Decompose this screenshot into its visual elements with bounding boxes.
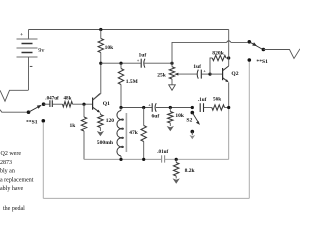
wire Q2 collector to rail xyxy=(228,30,230,67)
node 47k bottom xyxy=(142,158,145,161)
svg-text:.1uf: .1uf xyxy=(198,97,207,103)
switch S1 output half xyxy=(248,40,269,65)
transistor Q2 xyxy=(223,66,239,82)
svg-text:8.2k: 8.2k xyxy=(185,168,196,174)
bypass wire right vertical xyxy=(248,61,250,198)
ground below S2 xyxy=(190,135,196,139)
switch S2 xyxy=(186,111,200,135)
capacitor 6uf xyxy=(148,103,192,120)
inductor 500mh xyxy=(97,108,124,160)
node 25k top xyxy=(170,62,173,65)
svg-text:Q2 were: Q2 were xyxy=(1,151,22,157)
svg-text:+: + xyxy=(20,32,23,38)
node 10k-2 top xyxy=(169,106,172,109)
resistor 8.2k xyxy=(174,159,196,178)
ground below mid 10k xyxy=(167,126,174,131)
capacitor 1uf (Q1 out) xyxy=(137,53,172,68)
svg-text:500mh: 500mh xyxy=(97,140,114,146)
bypass wire bottom xyxy=(43,197,249,199)
svg-text:+: + xyxy=(148,103,151,108)
capacitor .047uf xyxy=(44,95,63,107)
wire base node to Q2 xyxy=(210,73,222,75)
battery B1 9v xyxy=(17,30,46,91)
ground below 120 xyxy=(97,131,104,136)
svg-text:2873: 2873 xyxy=(0,160,12,166)
svg-text:Q1: Q1 xyxy=(103,101,110,107)
article text left margin xyxy=(0,151,34,212)
svg-text:25k: 25k xyxy=(157,72,167,78)
node inductor top xyxy=(119,106,122,109)
wire to output switch xyxy=(172,42,227,63)
ground below 25k xyxy=(169,85,176,90)
node inductor bottom xyxy=(119,158,122,161)
svg-text:+: + xyxy=(203,68,206,73)
svg-text:9v: 9v xyxy=(38,47,45,54)
svg-text:6uf: 6uf xyxy=(152,113,160,119)
svg-text:1k: 1k xyxy=(70,123,77,129)
input jack J1 xyxy=(0,90,29,101)
resistor 48k xyxy=(63,95,93,107)
node S2 top xyxy=(191,106,194,109)
svg-text:bly an: bly an xyxy=(0,169,15,175)
resistor 1.5M xyxy=(118,63,138,107)
svg-text:a replacement: a replacement xyxy=(0,177,34,183)
svg-text:120: 120 xyxy=(106,118,115,124)
node base Q1 / 1k junction xyxy=(82,103,85,106)
svg-text:10k: 10k xyxy=(175,113,185,119)
mid signal line (6uf row) xyxy=(121,107,152,109)
svg-text:56k: 56k xyxy=(213,96,221,102)
svg-text:.047uf: .047uf xyxy=(45,95,59,101)
capacitor 1uf (to Q2 base) xyxy=(193,64,210,79)
switch S1 input half xyxy=(26,102,45,125)
svg-text:48k: 48k xyxy=(64,95,72,101)
wire input to switch xyxy=(0,110,29,113)
node 1.5M top xyxy=(119,62,122,65)
svg-text:10k: 10k xyxy=(105,45,115,51)
svg-text:1uf: 1uf xyxy=(193,64,201,70)
svg-text:47k: 47k xyxy=(129,130,139,136)
resistor 1k xyxy=(70,104,87,159)
transistor Q1 xyxy=(93,94,111,113)
node Q1 collector xyxy=(99,62,102,65)
node 8.2k top xyxy=(175,158,178,161)
wire Q2 emitter down xyxy=(228,82,230,107)
wire hop over Q2 collector line xyxy=(227,41,231,43)
wire collector node right xyxy=(101,62,141,64)
bypass wire left vertical xyxy=(42,122,44,198)
svg-text:Q2: Q2 xyxy=(231,71,238,77)
resistor 10k (mid) xyxy=(168,108,185,127)
top supply rail xyxy=(29,29,229,31)
resistor 47k xyxy=(129,108,146,160)
node 47k top xyxy=(142,106,145,109)
inductor core bar xyxy=(125,113,127,152)
resistor 10k (Q1 collector load) xyxy=(98,28,114,63)
svg-text:S2: S2 xyxy=(186,117,192,123)
resistor 120 (Q1 emitter) xyxy=(98,113,115,131)
svg-text:+: + xyxy=(137,58,140,63)
svg-text:ably have: ably have xyxy=(0,186,23,192)
svg-text:**S1: **S1 xyxy=(256,59,268,65)
resistor 820k (feedback) xyxy=(210,51,229,75)
bottom rail xyxy=(84,158,161,160)
svg-text:820k: 820k xyxy=(212,51,224,57)
svg-text:.01uf: .01uf xyxy=(157,149,168,155)
wire Q1 collector up xyxy=(93,63,101,100)
node 820k / Q2 collector xyxy=(227,56,230,59)
capacitor .01uf xyxy=(157,149,168,163)
ground below 8.2k xyxy=(173,178,180,183)
potentiometer 25k xyxy=(157,63,174,85)
svg-text:**S1: **S1 xyxy=(26,119,38,125)
25k wiper arm xyxy=(174,73,197,76)
svg-text:the pedal: the pedal xyxy=(3,206,25,212)
resistor 56k xyxy=(212,96,229,110)
node emitter / 56k xyxy=(227,106,230,109)
svg-text:1.5M: 1.5M xyxy=(126,79,139,85)
capacitor .1uf xyxy=(198,97,212,112)
svg-text:1uf: 1uf xyxy=(139,53,147,59)
node Q2 base xyxy=(208,73,211,76)
output jack J2 xyxy=(263,49,300,59)
